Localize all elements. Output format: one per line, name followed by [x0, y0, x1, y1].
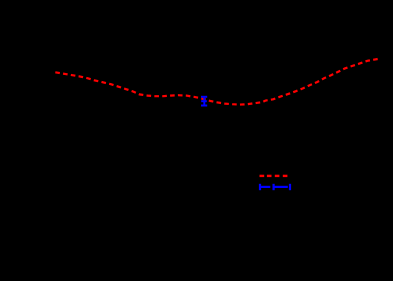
- blue error bar: middle marker: [201, 100, 207, 102]
- legend red dashed line sample: [260, 175, 288, 177]
- blue error bar: vertical line: [203, 97, 205, 106]
- blue error bar: bottom cap: [201, 105, 207, 107]
- legend blue errorbar sample: [260, 184, 290, 190]
- red dashed data curve: [55, 59, 377, 105]
- blue error bar: top cap: [201, 96, 207, 98]
